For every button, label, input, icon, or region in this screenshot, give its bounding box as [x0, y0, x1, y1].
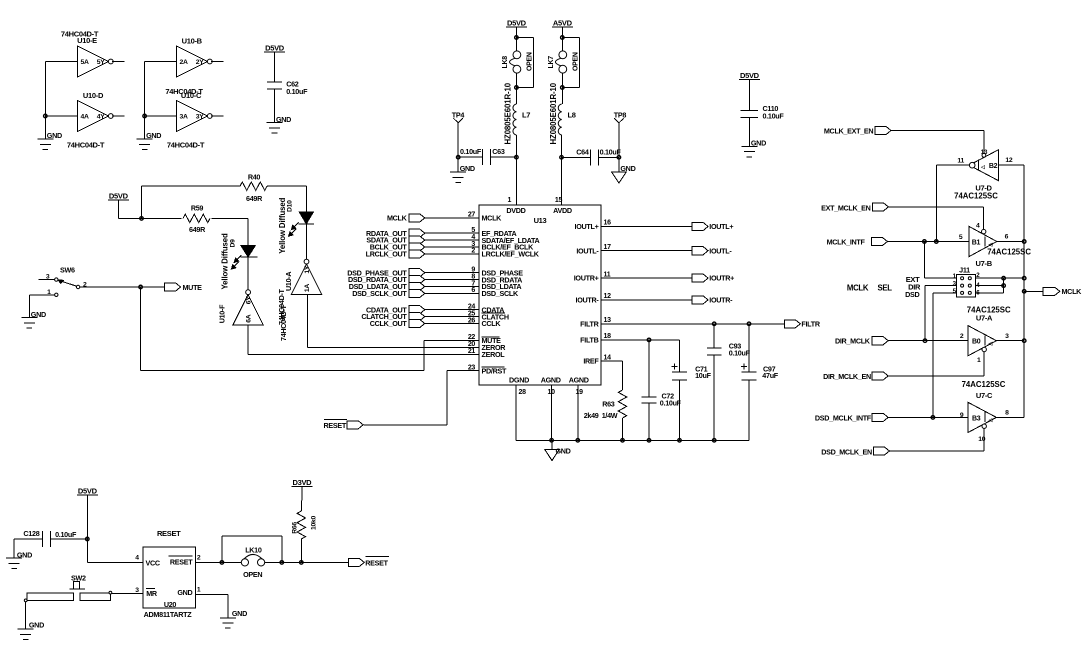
port flag BCLK_OUT — [370, 243, 425, 252]
port flag CCLK_OUT — [370, 319, 425, 328]
svg-text:11: 11 — [604, 271, 611, 278]
resistor R66 10k0 — [292, 511, 318, 539]
svg-text:GND: GND — [29, 621, 44, 630]
port flag DSD_LDATA_OUT — [349, 282, 425, 291]
svg-text:LK7: LK7 — [548, 56, 555, 69]
pin 22 MUTE — [468, 334, 501, 345]
port flag MCLK — [1043, 287, 1082, 296]
wire — [748, 117, 750, 146]
wire — [936, 164, 969, 166]
node junction — [1022, 240, 1026, 244]
label EXT — [906, 275, 920, 284]
inverter U10-A 74HC04D-T — [277, 259, 322, 341]
svg-text:MR: MR — [146, 589, 158, 598]
port flag DSD_RDATA_OUT — [348, 275, 425, 284]
svg-text:GND: GND — [17, 551, 32, 560]
port flag IOUTL+ — [692, 222, 733, 231]
power D5VD — [108, 191, 129, 200]
wire — [598, 156, 619, 158]
wire — [458, 156, 482, 158]
node junction — [140, 217, 144, 221]
wire — [515, 73, 517, 87]
port flag RESET — [324, 420, 364, 430]
svg-text:6: 6 — [1005, 233, 1009, 240]
wire — [112, 115, 125, 117]
ground — [220, 609, 247, 628]
svg-text:SEL: SEL — [878, 284, 893, 293]
svg-text:C128: C128 — [23, 529, 39, 538]
wire net FILTB — [601, 340, 680, 371]
port flag MUTE — [165, 283, 203, 292]
wire — [457, 123, 459, 157]
wire net IOUTL+ — [601, 226, 692, 228]
node junction — [280, 561, 284, 565]
header J11 — [953, 265, 981, 297]
svg-text:IOUTR+: IOUTR+ — [709, 274, 734, 283]
wire — [551, 440, 553, 449]
wire bypass — [562, 38, 579, 88]
wire MCLK rail — [1023, 165, 1025, 417]
svg-text:MCLK: MCLK — [387, 214, 408, 223]
pin 20 ZEROR — [468, 341, 506, 352]
pin 23 PD/RST — [468, 364, 507, 375]
pin 15 label — [555, 197, 563, 204]
svg-text:2A: 2A — [180, 59, 188, 66]
pin 7 DSD_LDATA — [471, 280, 521, 291]
node junction — [550, 439, 554, 443]
svg-text:IOUTL-: IOUTL- — [576, 246, 599, 255]
svg-text:DVDD: DVDD — [506, 206, 525, 215]
svg-text:0.10uF: 0.10uF — [55, 530, 77, 539]
svg-text:U7-B: U7-B — [976, 259, 993, 268]
svg-text:AGND: AGND — [541, 376, 561, 385]
wire — [274, 52, 276, 82]
port flag RESET out — [348, 556, 389, 567]
node junction — [456, 155, 460, 159]
node junction — [923, 339, 927, 343]
svg-text:D9: D9 — [230, 239, 237, 248]
wire — [618, 157, 620, 172]
buffer U7-B 74AC125SC — [959, 222, 1031, 268]
wire J11 pin3 DIR — [925, 286, 957, 341]
inverter U10-D 74HC04D-T — [67, 91, 113, 150]
svg-text:A5VD: A5VD — [553, 19, 573, 28]
svg-text:D5VD: D5VD — [109, 191, 129, 200]
wire net LRCLK_OUT — [424, 253, 479, 255]
port flag IOUTL- — [692, 246, 732, 255]
wire — [80, 286, 165, 288]
inverter U10-E 74HC04D-T — [61, 30, 113, 78]
svg-text:MCLK: MCLK — [847, 284, 869, 293]
pin 26 CCLK — [468, 317, 502, 328]
port flag LRCLK_OUT — [366, 250, 425, 259]
wire — [888, 416, 968, 418]
svg-text:CCLK_OUT: CCLK_OUT — [370, 319, 408, 328]
jumper LK7 OPEN — [548, 51, 580, 73]
svg-text:74HC04D-T: 74HC04D-T — [279, 304, 288, 341]
wire VCC — [87, 539, 143, 562]
node junction — [617, 156, 621, 160]
svg-text:MUTE: MUTE — [183, 283, 203, 292]
wire — [889, 450, 984, 452]
svg-text:B1: B1 — [972, 239, 981, 246]
svg-text:0.10uF: 0.10uF — [460, 147, 482, 156]
svg-text:GND: GND — [276, 115, 291, 124]
svg-text:B0: B0 — [972, 339, 981, 346]
svg-text:4: 4 — [135, 554, 139, 561]
wire pin15 AVDD — [561, 157, 563, 205]
svg-text:HZ0805E601R-10: HZ0805E601R-10 — [504, 82, 513, 144]
svg-text:MCLK_EXT_EN: MCLK_EXT_EN — [824, 126, 874, 135]
svg-text:8: 8 — [1005, 409, 1009, 416]
wire J11 pin6 — [975, 278, 1003, 293]
svg-text:AGND: AGND — [569, 376, 589, 385]
node junction — [143, 114, 147, 118]
inverter U10-F 74HC04D-T — [218, 290, 264, 325]
wire — [457, 157, 459, 172]
svg-text:13: 13 — [604, 317, 612, 324]
pin 24 CDATA — [468, 304, 504, 315]
node junction — [86, 537, 90, 541]
diode D9 LED Yellow Diffused — [221, 233, 258, 289]
switch SW2 — [24, 573, 112, 602]
ground — [450, 164, 475, 182]
svg-text:U7-C: U7-C — [976, 391, 993, 400]
svg-text:5A: 5A — [81, 59, 89, 66]
wire — [112, 592, 143, 594]
svg-text:R40: R40 — [248, 173, 261, 182]
svg-text:2: 2 — [197, 554, 201, 561]
wire — [195, 561, 245, 563]
port flag CDATA_OUT — [366, 305, 425, 314]
svg-text:18: 18 — [604, 333, 612, 340]
svg-text:IREF: IREF — [583, 357, 599, 366]
wire — [86, 495, 88, 539]
wire — [515, 88, 517, 105]
wire — [112, 61, 125, 63]
power D5VD — [506, 19, 527, 28]
wire — [211, 115, 224, 117]
svg-text:28: 28 — [519, 389, 527, 396]
svg-text:1: 1 — [508, 197, 512, 204]
svg-text:13: 13 — [981, 149, 988, 156]
inverter U10-C 74HC04D-T — [165, 87, 212, 150]
wire — [561, 88, 563, 105]
power D3VD — [291, 478, 312, 487]
node junction — [621, 439, 625, 443]
svg-text:DIR_MCLK: DIR_MCLK — [835, 337, 871, 346]
svg-text:IOUTR+: IOUTR+ — [574, 274, 599, 283]
port flag DIR_MCLK — [835, 337, 888, 346]
svg-text:14: 14 — [604, 354, 612, 361]
svg-text:D5VD: D5VD — [740, 71, 760, 80]
wire net RESET to pin23 — [364, 371, 479, 425]
svg-text:0.10uF: 0.10uF — [286, 87, 308, 96]
node junction — [515, 86, 519, 90]
port flag DIR_MCLK_EN — [823, 372, 888, 381]
svg-text:D5VD: D5VD — [265, 44, 285, 53]
svg-text:◁: ◁ — [987, 418, 992, 424]
resistor R59 649R — [183, 204, 210, 234]
wire bypass — [516, 38, 533, 88]
svg-text:B3: B3 — [972, 415, 981, 422]
port flag MCLK_EXT_EN — [824, 126, 891, 135]
svg-text:L8: L8 — [568, 111, 576, 120]
svg-text:RESET: RESET — [324, 421, 347, 430]
node junction — [712, 322, 716, 326]
svg-text:HZ0805E601R-10: HZ0805E601R-10 — [549, 82, 558, 144]
ground — [137, 131, 162, 149]
wire net DSD_PHASE_OUT — [424, 272, 479, 274]
wire net BCLK_OUT — [424, 246, 479, 248]
port flag MCLK_INTF — [827, 237, 888, 246]
capacitor C64 0.10uF — [576, 148, 621, 166]
svg-text:LK8: LK8 — [502, 56, 509, 69]
node junction — [931, 416, 935, 420]
svg-text:U7-A: U7-A — [976, 314, 993, 323]
svg-text:IOUTL+: IOUTL+ — [575, 222, 599, 231]
node junction — [44, 114, 48, 118]
pin 1 label — [197, 586, 201, 593]
wire — [195, 594, 228, 618]
pin 9 DSD_PHASE — [471, 267, 523, 278]
port flag FILTR — [784, 319, 821, 328]
ground AGND triangle — [612, 164, 636, 183]
svg-text:47uF: 47uF — [762, 371, 778, 380]
svg-text:74HC04D-T: 74HC04D-T — [167, 141, 205, 150]
jumper LK10 OPEN — [241, 545, 264, 579]
node junction — [515, 36, 519, 40]
pin 4 label — [135, 554, 139, 561]
wire — [141, 186, 143, 218]
node junction — [647, 338, 651, 342]
node junction — [647, 439, 651, 443]
node junction — [561, 36, 565, 40]
wire — [300, 539, 302, 562]
wire — [561, 38, 563, 51]
ground AGND triangle — [545, 447, 571, 461]
svg-text:11: 11 — [957, 158, 964, 165]
svg-text:3: 3 — [46, 273, 50, 280]
svg-text:9: 9 — [960, 412, 964, 419]
svg-text:12: 12 — [604, 293, 612, 300]
svg-text:RESET: RESET — [157, 529, 181, 538]
wire — [25, 602, 27, 629]
svg-text:DSD_MCLK_EN: DSD_MCLK_EN — [821, 447, 872, 456]
wire — [515, 27, 517, 38]
svg-text:MCLK: MCLK — [1062, 287, 1083, 296]
wire J11 pin2 — [975, 277, 1024, 279]
node junction — [561, 86, 565, 90]
wire — [996, 416, 1024, 418]
pin 13 FILTR — [580, 317, 611, 328]
svg-text:1A: 1A — [304, 284, 311, 292]
label DSD — [905, 290, 919, 299]
pin 8 DSD_RDATA — [471, 273, 522, 284]
wire net MCLK — [424, 217, 479, 219]
wire bypass — [222, 536, 282, 562]
svg-text:3: 3 — [1005, 333, 1009, 340]
svg-text:3A: 3A — [180, 114, 188, 121]
capacitor C72 0.10uF — [642, 340, 682, 440]
svg-text:74AC125SC: 74AC125SC — [987, 247, 1031, 256]
ground — [267, 115, 292, 133]
capacitor C71 10uF polarized — [672, 363, 712, 440]
svg-text:R63: R63 — [602, 400, 615, 409]
node junction — [1022, 290, 1026, 294]
node junction — [678, 439, 682, 443]
svg-text:MCLK: MCLK — [482, 214, 503, 223]
node junction — [747, 322, 751, 326]
port flag CLATCH_OUT — [361, 312, 424, 321]
wire ground bus — [516, 439, 749, 441]
wire — [887, 241, 968, 243]
wire net DSD_LDATA_OUT — [424, 286, 479, 288]
wire — [45, 62, 77, 140]
node junction — [712, 439, 716, 443]
svg-text:RESET: RESET — [170, 557, 193, 566]
svg-text:GND: GND — [232, 609, 247, 618]
wire J11 pin5 DSD — [933, 293, 957, 418]
label 74AC125SC U7-C — [962, 380, 1006, 400]
svg-text:1/4W: 1/4W — [602, 411, 618, 420]
switch SW6 — [29, 265, 87, 296]
wire net RDATA_OUT — [424, 232, 479, 234]
svg-text:74AC125SC: 74AC125SC — [954, 192, 998, 201]
capacitor C62 0.10uF — [267, 80, 308, 96]
svg-text:EXT_MCLK_EN: EXT_MCLK_EN — [821, 203, 871, 212]
node junction — [576, 439, 580, 443]
node junction — [1002, 276, 1006, 280]
wire — [142, 185, 240, 187]
wire net ZEROR — [307, 295, 479, 348]
capacitor C93 0.10uF — [707, 324, 751, 441]
svg-text:GND: GND — [620, 164, 635, 173]
pin 16 IOUTL+ — [575, 220, 612, 231]
svg-text:10k0: 10k0 — [310, 516, 317, 530]
label 74AC125SC U7-A — [967, 306, 1011, 323]
svg-text:10uF: 10uF — [695, 371, 711, 380]
svg-text:649R: 649R — [246, 194, 263, 203]
svg-text:6Y: 6Y — [246, 296, 253, 304]
wire net SDATA_OUT — [424, 239, 479, 241]
inductor L7 HZ0805E601R-10 — [504, 82, 531, 144]
wire — [999, 164, 1025, 166]
resistor R40 649R — [240, 173, 267, 203]
pin 14 IREF — [583, 354, 611, 365]
port flag SDATA_OUT — [366, 236, 424, 245]
svg-text:U10-F: U10-F — [218, 304, 227, 323]
wire — [211, 218, 248, 245]
svg-text:IOUTR-: IOUTR- — [576, 296, 600, 305]
wire net CDATA_OUT — [424, 309, 479, 311]
wire — [888, 340, 968, 342]
svg-text:GND: GND — [751, 139, 766, 148]
label DIR — [908, 283, 921, 292]
svg-text:VCC: VCC — [146, 558, 160, 567]
svg-text:74AC125SC: 74AC125SC — [962, 380, 1006, 389]
jumper LK8 OPEN — [502, 51, 534, 73]
wire — [118, 200, 141, 219]
svg-text:SW6: SW6 — [60, 265, 75, 274]
port flag RDATA_OUT — [366, 229, 425, 238]
svg-text:4: 4 — [976, 222, 980, 229]
svg-text:IOUTL+: IOUTL+ — [709, 222, 733, 231]
capacitor C110 0.10uF — [741, 104, 785, 121]
node junction — [300, 561, 304, 565]
svg-text:649R: 649R — [189, 225, 206, 234]
svg-text:D3VD: D3VD — [292, 478, 312, 487]
svg-text:5Y: 5Y — [97, 59, 105, 66]
wire — [1024, 290, 1043, 292]
label MCLK SEL — [847, 284, 892, 293]
ground — [741, 139, 766, 157]
wire net CLATCH_OUT — [424, 316, 479, 318]
pin 19 AGND — [569, 376, 589, 441]
wire net IOUTR- — [601, 299, 692, 301]
ic U20 ADM811TARTZ body — [143, 529, 195, 619]
svg-text:1: 1 — [197, 586, 201, 593]
wire — [515, 135, 517, 157]
wire net ZEROL — [248, 325, 479, 354]
wire J11 pin1 EXT — [924, 242, 956, 279]
pin 10 AGND — [541, 376, 561, 441]
label AVDD — [553, 206, 572, 215]
svg-text:D5VD: D5VD — [78, 487, 98, 496]
power D5VD — [77, 487, 98, 496]
node junction — [1022, 276, 1026, 280]
pin 21 ZEROL — [468, 348, 505, 359]
svg-text:TP8: TP8 — [614, 111, 627, 120]
ground — [37, 131, 62, 149]
svg-text:U10-B: U10-B — [182, 37, 203, 46]
label DVDD — [506, 206, 525, 215]
svg-text:FILTR: FILTR — [580, 319, 599, 328]
pin 17 IOUTL- — [576, 244, 611, 255]
node junction — [1002, 284, 1006, 288]
resistor R63 2k49 1/4W — [584, 390, 627, 420]
port flag DSD_MCLK_EN — [821, 447, 889, 456]
wire — [274, 89, 276, 123]
wire — [28, 295, 30, 318]
wire net CCLK_OUT — [424, 323, 479, 325]
wire — [561, 73, 563, 87]
power D5VD — [739, 71, 760, 80]
wire — [562, 156, 591, 158]
ground — [18, 621, 44, 640]
svg-text:4Y: 4Y — [97, 114, 105, 121]
pin 28 DGND — [509, 376, 529, 441]
pin 6 DSD_SCLK — [471, 287, 519, 298]
svg-text:L7: L7 — [522, 111, 530, 120]
wire — [142, 217, 182, 219]
svg-text:1: 1 — [977, 357, 981, 364]
svg-text:GND: GND — [556, 447, 571, 456]
buffer U7-A 74AC125SC — [960, 326, 1009, 365]
wire — [935, 165, 937, 241]
svg-text:U13: U13 — [534, 216, 547, 225]
port flag MCLK — [387, 214, 425, 223]
buffer U7-C 74AC125SC — [960, 402, 1009, 443]
svg-text:15: 15 — [555, 197, 563, 204]
pin 27 MCLK — [468, 212, 502, 223]
svg-text:OPEN: OPEN — [573, 52, 580, 71]
node junction — [220, 561, 224, 565]
pin 3 label — [135, 587, 139, 594]
wire — [300, 486, 303, 511]
pin 12 IOUTR- — [576, 293, 612, 304]
svg-text:B2: B2 — [989, 163, 998, 170]
